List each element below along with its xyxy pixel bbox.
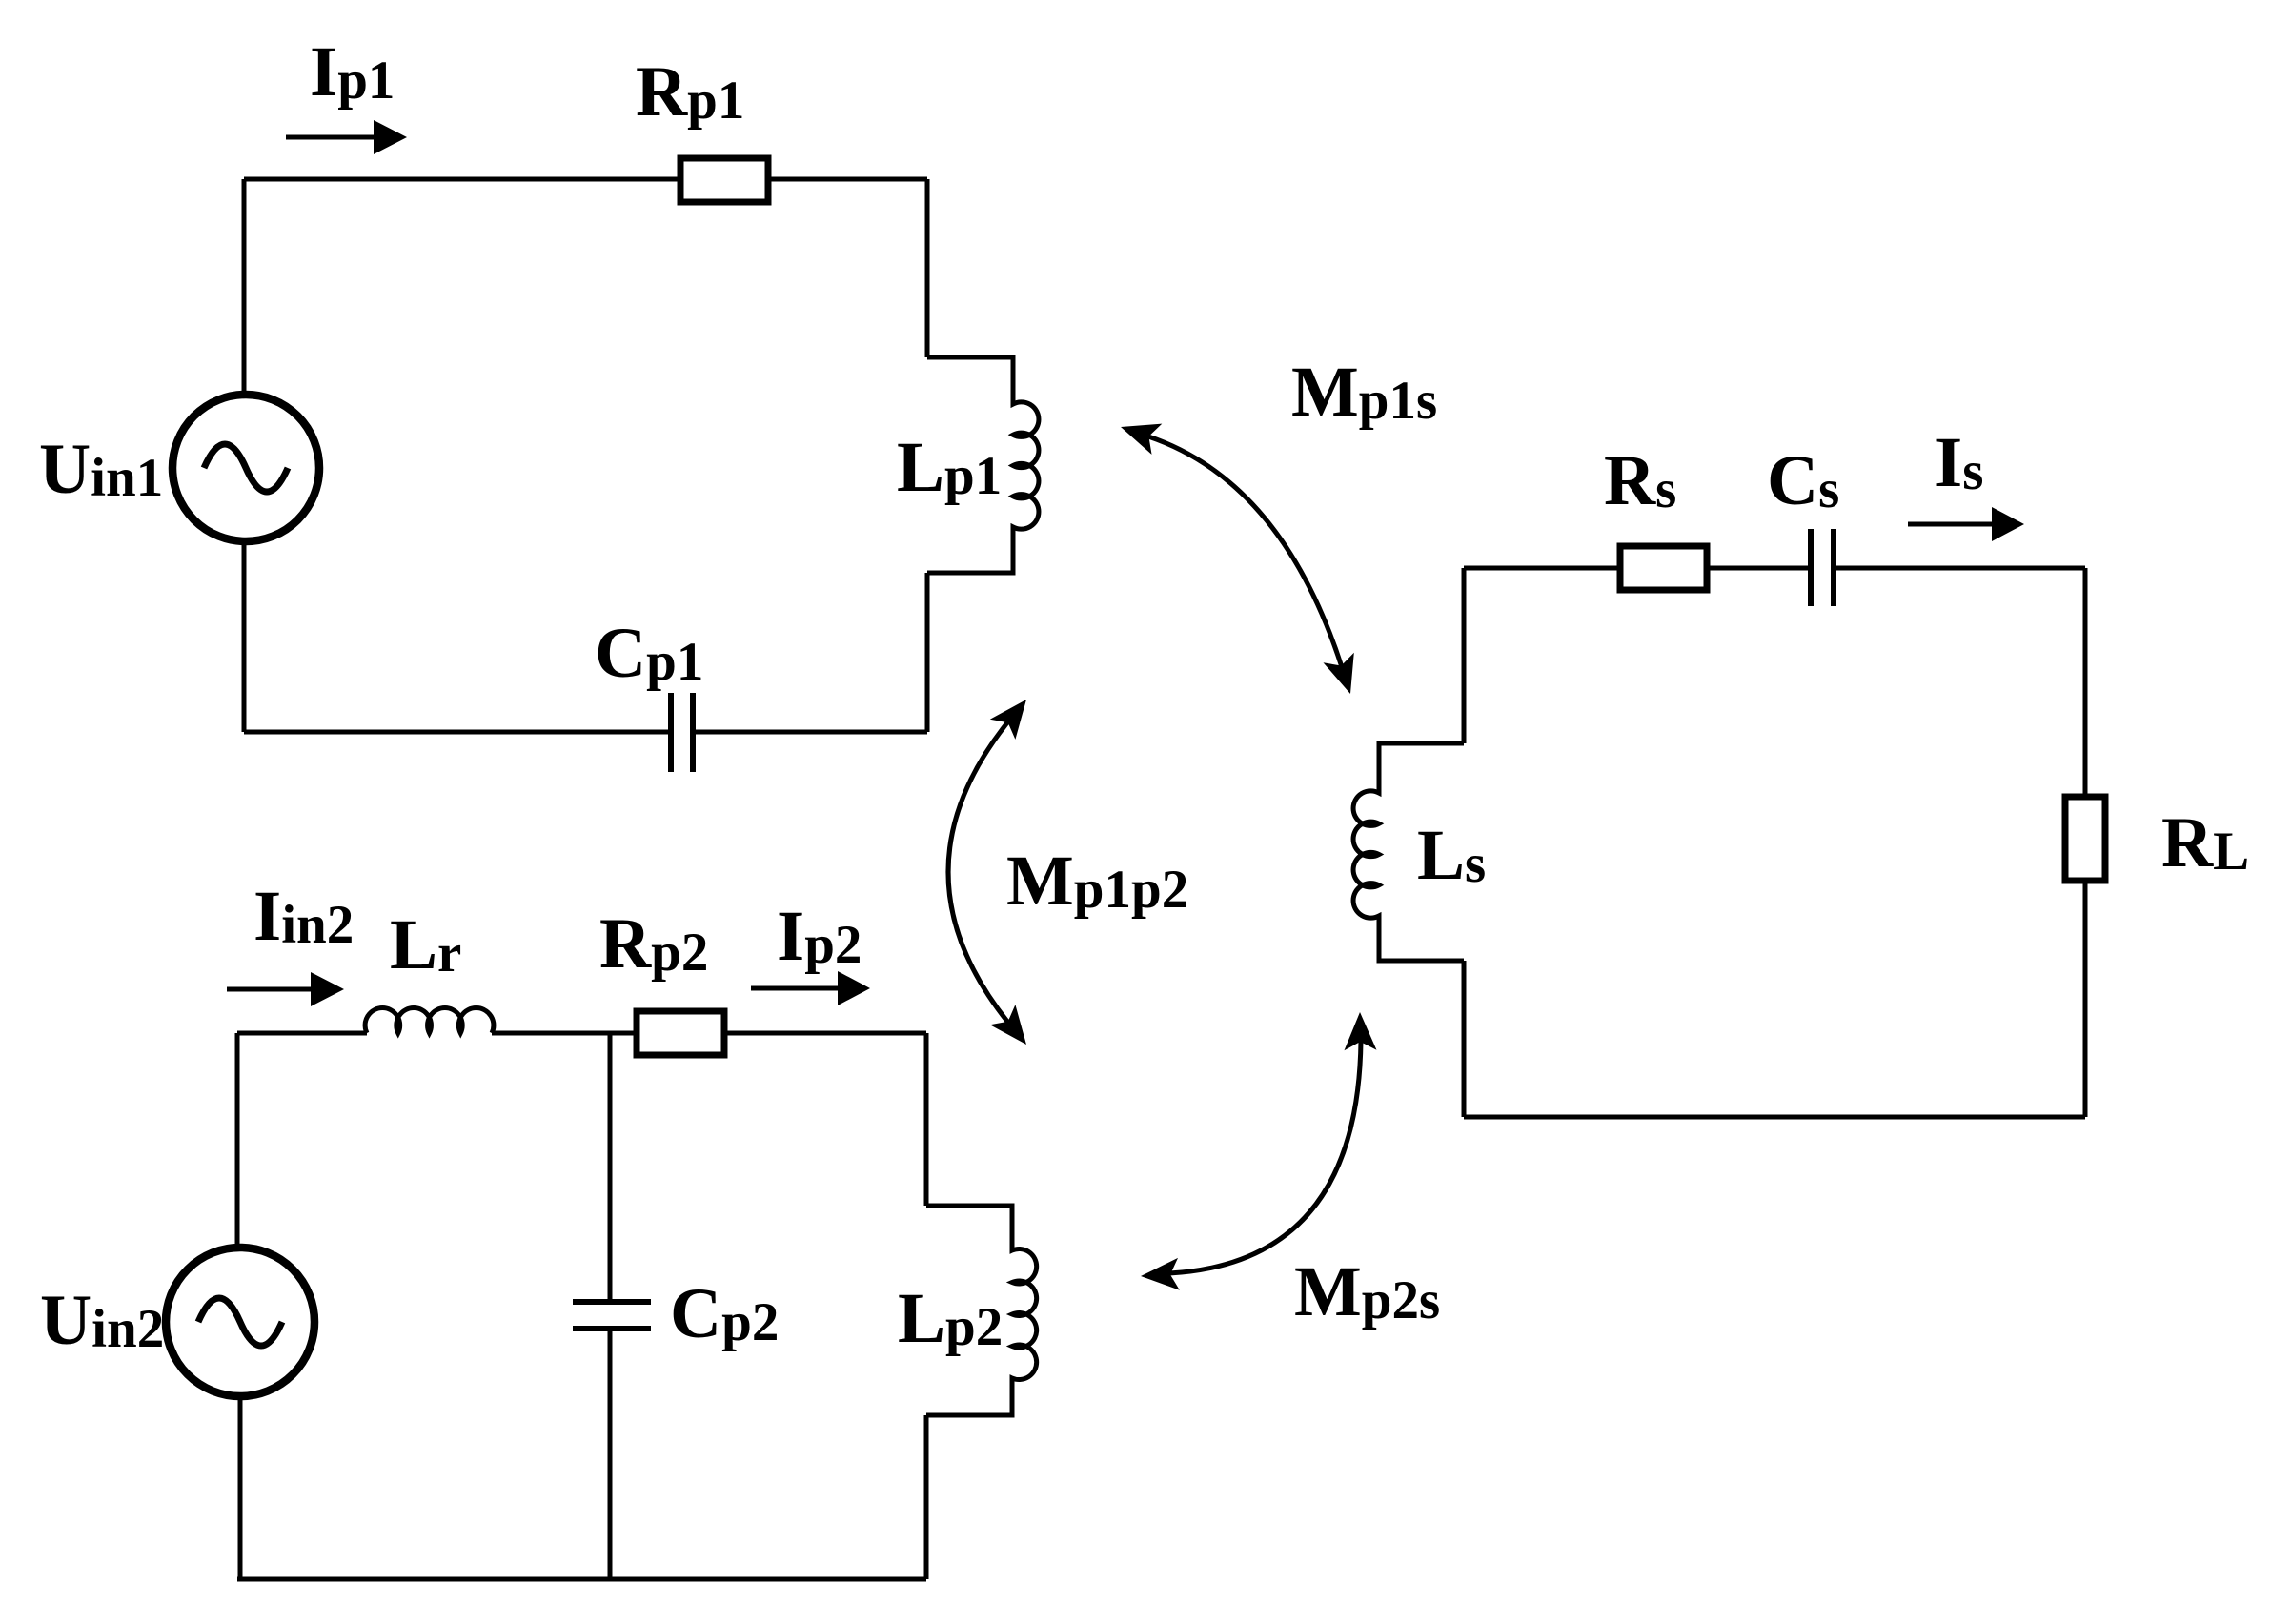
wire Cp2 branch lower	[608, 1329, 613, 1579]
wire circuit2 left lower	[238, 1396, 243, 1579]
wire circuit3 bottom	[1464, 1115, 2085, 1120]
sine symbol Uin2	[198, 1298, 282, 1346]
resistor Rs	[1620, 546, 1707, 590]
wire circuit3 right lower	[2083, 881, 2088, 1117]
capacitor Cp1	[671, 693, 693, 772]
arrow Is	[1908, 507, 2024, 541]
resistor Rp2	[637, 1011, 724, 1055]
wire circuit2 top-middle	[492, 1031, 637, 1036]
source Uin2	[166, 1248, 314, 1396]
inductor Ls	[1353, 743, 1464, 961]
wire Cp2 branch upper	[608, 1033, 613, 1302]
wire circuit1 left lower	[242, 541, 247, 732]
capacitor Cp2	[573, 1302, 651, 1329]
inductor Lp2	[926, 1206, 1037, 1415]
sine symbol Uin1	[204, 444, 288, 492]
wire circuit3 left lower	[1462, 961, 1467, 1117]
source Uin1	[172, 395, 319, 541]
mutual coupling arrow Mp1p2	[948, 689, 1039, 1054]
wire circuit2 bottom	[237, 1577, 926, 1582]
wire circuit3 left upper	[1462, 568, 1467, 743]
wire circuit1 right upper	[925, 179, 930, 357]
capacitor Cs	[1811, 529, 1834, 606]
wire circuit3 top-right	[1836, 566, 2085, 571]
wire circuit1 right lower	[925, 573, 930, 732]
wire circuit1 top-left	[244, 177, 680, 182]
arrow Ip1	[286, 120, 407, 154]
inductor Lp1	[927, 357, 1039, 573]
inductor Lr	[365, 1008, 494, 1033]
wire circuit3 right upper	[2083, 568, 2088, 797]
wire circuit3 top-middle	[1707, 566, 1808, 571]
wire circuit2 left upper	[235, 1033, 240, 1248]
wire circuit3 top-left corner	[1464, 566, 1620, 571]
wire circuit1 bottom-left	[244, 730, 668, 735]
wire circuit2 top-right	[724, 1031, 926, 1036]
wire circuit2 top-left	[237, 1031, 367, 1036]
wire circuit1 top-right	[768, 177, 927, 182]
arrow Iin2	[227, 972, 344, 1006]
wire circuit1 bottom-right	[696, 730, 927, 735]
resistor RL	[2065, 797, 2105, 881]
wire circuit1 left upper	[242, 179, 247, 395]
wire circuit2 right upper	[924, 1033, 929, 1206]
wire circuit2 right lower	[924, 1415, 929, 1579]
mutual coupling arrow Mp1s	[1116, 412, 1367, 699]
mutual coupling arrow Mp2s	[1140, 1012, 1376, 1292]
resistor Rp1	[680, 158, 768, 202]
arrow Ip2	[751, 971, 870, 1005]
